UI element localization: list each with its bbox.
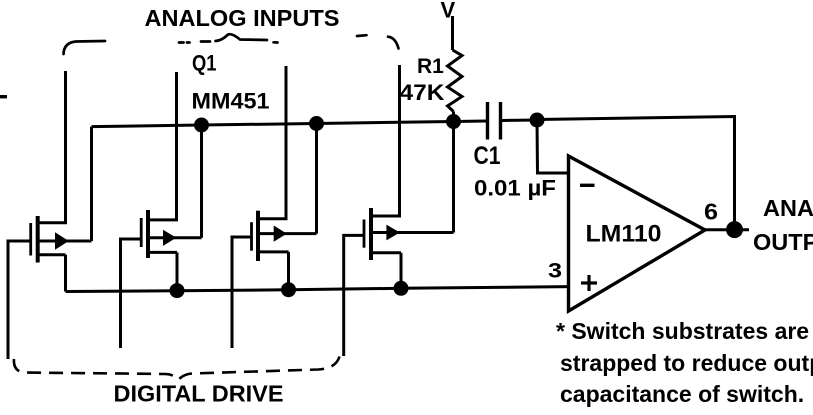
svg-text:6: 6 xyxy=(704,199,718,225)
capacitor C1 xyxy=(488,102,501,140)
node junction Q1b substrate / top bus xyxy=(194,118,209,133)
svg-text:strapped to reduce output: strapped to reduce output xyxy=(560,350,813,376)
wire top bus (substrate strap to R1/C1 node) xyxy=(92,121,487,127)
wire Q1d source drop to bottom bus xyxy=(400,253,403,288)
op-amp inverting input symbol xyxy=(580,184,595,187)
svg-text:Q1: Q1 xyxy=(192,51,217,76)
wire Q1c substrate riser to top bus xyxy=(315,124,318,234)
wire analog input 2 (to Q1b drain) xyxy=(148,72,177,220)
svg-text:ANALOG: ANALOG xyxy=(763,195,813,221)
svg-text:DIGITAL DRIVE: DIGITAL DRIVE xyxy=(114,381,284,407)
svg-text:capacitance of switch.: capacitance of switch. xyxy=(560,381,804,407)
transistor Q1b (MOS switch 2) xyxy=(141,210,201,258)
wire analog input 4 (to Q1d drain) xyxy=(371,65,400,216)
transistor Q1d (MOS switch 4) xyxy=(364,208,454,260)
wire Q1c source drop to bottom bus xyxy=(287,252,290,290)
resistor R1 xyxy=(448,50,463,112)
wire op-amp output xyxy=(703,228,749,231)
wire digital drive 3 (Q1c gate) xyxy=(232,237,251,348)
op-amp U1 LM110 xyxy=(569,156,706,311)
wire V to R1 xyxy=(451,16,454,50)
wire inverting input (node to op-amp) xyxy=(537,120,569,173)
svg-text:OUTPUT: OUTPUT xyxy=(753,229,813,255)
wire digital drive 4 (Q1d gate) xyxy=(344,235,364,356)
wire Q1a substrate riser to top bus xyxy=(90,127,93,241)
brace (digital drive group) xyxy=(14,357,340,380)
wire Q1d substrate riser to top bus (R1 node) xyxy=(452,122,455,233)
svg-text:ANALOG INPUTS: ANALOG INPUTS xyxy=(145,5,340,31)
svg-text:3: 3 xyxy=(548,260,562,283)
wire analog input 3 (to Q1c drain) xyxy=(258,66,286,219)
svg-text:C1: C1 xyxy=(474,142,501,170)
svg-text:LM110: LM110 xyxy=(586,221,662,248)
scan mark at left edge xyxy=(0,95,7,98)
transistor Q1c (MOS switch 3) xyxy=(252,211,317,261)
wire digital drive 2 (Q1b gate) xyxy=(121,239,141,348)
wire digital drive 1 (Q1a gate) xyxy=(8,241,30,359)
node junction C1 / feedback / inverting input xyxy=(530,113,545,128)
wire Q1b source drop to bottom bus xyxy=(176,252,179,290)
dashed bracket (analog inputs group) xyxy=(64,34,399,54)
svg-text:0.01 µF: 0.01 µF xyxy=(474,176,556,201)
node junction Q1b source / bottom bus xyxy=(170,283,185,298)
wire analog input 1 (to Q1a drain) xyxy=(38,71,66,223)
node junction Q1d source / bottom bus xyxy=(394,281,409,296)
svg-text:* Switch substrates are: * Switch substrates are xyxy=(556,318,809,344)
node junction R1 / Q1d substrate / C1 xyxy=(446,114,461,129)
transistor Q1a (MOS switch 1) xyxy=(31,216,92,263)
svg-text:47K: 47K xyxy=(400,80,446,105)
svg-text:R1: R1 xyxy=(417,55,444,78)
wire feedback (output up to C1 node) xyxy=(537,117,735,230)
wire R1 to bus node xyxy=(452,112,455,122)
node junction Q1c substrate / top bus xyxy=(309,116,324,131)
wire bottom bus (sources to non-inverting input) xyxy=(66,287,570,292)
node junction output / feedback xyxy=(726,221,743,238)
svg-text:MM451: MM451 xyxy=(192,89,270,114)
wire C1 to summing node xyxy=(502,119,537,123)
wire Q1b substrate riser to top bus xyxy=(200,125,203,238)
op-amp non-inverting input symbol xyxy=(581,275,597,291)
node junction Q1c source / bottom bus xyxy=(281,282,296,297)
wire Q1a source drop to bottom bus xyxy=(64,255,67,292)
